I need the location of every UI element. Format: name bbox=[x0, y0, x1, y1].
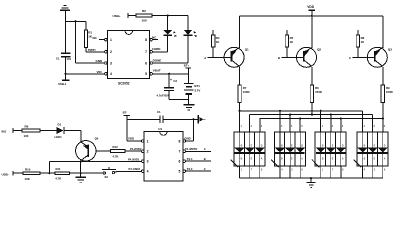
svg-text:B: B bbox=[204, 157, 206, 161]
ground (Q4 emitter) bbox=[75, 177, 86, 182]
svg-text:Q1: Q1 bbox=[245, 48, 249, 52]
wire Q4 emitter down bbox=[80, 161, 82, 177]
svg-text:100R: 100R bbox=[243, 90, 250, 94]
svg-text:P4.0/XD1: P4.0/XD1 bbox=[128, 157, 140, 161]
svg-text:R12: R12 bbox=[113, 145, 119, 149]
svg-text:P4.4: P4.4 bbox=[187, 157, 193, 161]
svg-text:USB+: USB+ bbox=[113, 14, 121, 18]
pin3 label P4.0/XD1 bbox=[128, 157, 140, 161]
LED D3 (charge indicator) bbox=[163, 16, 177, 52]
svg-text:100: 100 bbox=[24, 134, 29, 138]
svg-text:4: 4 bbox=[147, 170, 149, 174]
LED display block DS4 bbox=[354, 125, 388, 178]
node R10 output junction bbox=[40, 172, 55, 174]
wire bypass to pin3 row bbox=[49, 161, 142, 173]
wire C1 row bbox=[127, 118, 160, 120]
transistor driver Q2 with R5 base / R6 collector bbox=[278, 16, 322, 103]
wire pin7 CHRD to LED D3 bbox=[152, 51, 167, 53]
connector BT+ terminal bbox=[184, 64, 191, 74]
pin4 label VIN bbox=[97, 70, 102, 74]
svg-text:R11: R11 bbox=[56, 167, 61, 171]
wire U1 pin5 net C bbox=[186, 167, 212, 171]
svg-text:P4.2/XD2: P4.2/XD2 bbox=[130, 147, 142, 151]
svg-text:SC2052: SC2052 bbox=[118, 81, 130, 85]
wire Q3 collector drop bbox=[382, 103, 384, 132]
LED D4 (done indicator) bbox=[184, 16, 198, 64]
wire C3 to battery negative bbox=[169, 98, 188, 100]
svg-text:R10: R10 bbox=[25, 167, 31, 171]
wire C1 to VIN and USB-1 bbox=[66, 57, 106, 80]
svg-text:4.7K: 4.7K bbox=[55, 176, 61, 180]
op: charger IC U2 body SC2052 bbox=[107, 31, 149, 86]
resistor R2 bbox=[136, 9, 152, 22]
node VDD rail junction bbox=[311, 15, 313, 17]
pin7 label CHRD bbox=[152, 47, 161, 51]
pin1 NC stub bbox=[93, 36, 105, 40]
svg-text:BT-: BT- bbox=[123, 110, 128, 114]
wire display common rail bbox=[240, 177, 383, 179]
svg-text:8: 8 bbox=[145, 38, 147, 42]
wire bus C (Q3 net) bbox=[260, 117, 384, 131]
svg-text:C1: C1 bbox=[56, 57, 60, 61]
svg-text:U1: U1 bbox=[158, 127, 162, 131]
pin6 label DONE bbox=[153, 59, 162, 63]
connector USB+ input bbox=[113, 13, 137, 18]
resistor R10 bbox=[23, 167, 40, 181]
svg-text:USB-: USB- bbox=[2, 172, 9, 176]
svg-text:1: 1 bbox=[110, 38, 112, 42]
svg-text:P4.4/MTO: P4.4/MTO bbox=[185, 147, 197, 151]
svg-text:104: 104 bbox=[67, 57, 72, 61]
svg-text:C: C bbox=[349, 56, 351, 60]
svg-text:Q4: Q4 bbox=[95, 137, 99, 141]
jack J1 (probe tip) bbox=[198, 115, 205, 124]
transistor driver Q1 with R4 base / R7 collector bbox=[204, 16, 249, 103]
svg-text:P4.3: P4.3 bbox=[187, 167, 193, 171]
svg-text:6: 6 bbox=[179, 160, 181, 164]
wire U1 pin1 VDD bbox=[127, 137, 142, 141]
connector IN1 input bbox=[2, 128, 23, 133]
svg-text:S2: S2 bbox=[105, 175, 109, 179]
transistor Q4 bbox=[76, 137, 99, 161]
svg-text:1: 1 bbox=[147, 139, 149, 143]
svg-text:+: + bbox=[170, 78, 172, 82]
wire branch to R1 top bbox=[66, 21, 87, 30]
resistor R1 bbox=[84, 30, 92, 48]
svg-text:1K: 1K bbox=[216, 40, 220, 44]
node emitter junction lower bbox=[80, 172, 82, 174]
svg-text:4: 4 bbox=[110, 72, 112, 76]
svg-text:3.7V: 3.7V bbox=[194, 89, 200, 93]
node C3 tap bbox=[168, 73, 170, 75]
LED display block DS1 bbox=[231, 126, 265, 178]
node LED1 tap bbox=[167, 14, 169, 16]
svg-text:1K: 1K bbox=[361, 40, 365, 44]
svg-text:USB-1: USB-1 bbox=[58, 82, 67, 86]
LED display block DS3 bbox=[312, 126, 346, 178]
pin8 NC stub bbox=[152, 36, 158, 40]
svg-text:2: 2 bbox=[147, 150, 149, 154]
svg-text:BT1: BT1 bbox=[194, 84, 200, 88]
wire U1 pin8 GND riser bbox=[184, 119, 193, 141]
capacitor C3 4.7uF/50V bbox=[157, 74, 178, 100]
svg-text:6: 6 bbox=[145, 61, 147, 65]
connector USB-1 terminal bbox=[58, 80, 69, 86]
power VDD symbol bbox=[307, 5, 315, 16]
svg-text:R9: R9 bbox=[25, 125, 29, 129]
battery BT1 3.7V bbox=[184, 74, 201, 105]
svg-text:B: B bbox=[278, 56, 280, 60]
pin4 label P4.1/SD2 bbox=[128, 167, 140, 171]
wire U1 pin6 net B bbox=[186, 157, 212, 161]
svg-text:7: 7 bbox=[145, 50, 147, 54]
pin3 label GND bbox=[96, 59, 104, 63]
wire bus A (Q1 net) bbox=[239, 110, 363, 132]
connector BT- terminal bbox=[123, 110, 131, 141]
svg-text:VBAT: VBAT bbox=[153, 69, 161, 73]
wire VDD rail bbox=[240, 15, 383, 17]
svg-text:5: 5 bbox=[179, 170, 181, 174]
wire pin6 DONE to LED D4 bbox=[152, 62, 188, 64]
connector USB- input bbox=[2, 171, 24, 177]
IC U2 pins 1-8 bbox=[105, 38, 153, 76]
power terminal VCC bar (top-left) bbox=[60, 6, 70, 11]
svg-text:C3: C3 bbox=[173, 79, 177, 83]
resistor R9 bbox=[22, 125, 40, 139]
wire bus B (Q2 net) bbox=[250, 114, 373, 132]
switch S2 (push button) bbox=[102, 167, 116, 179]
svg-text:P4.1/SD2: P4.1/SD2 bbox=[128, 167, 140, 171]
svg-text:3: 3 bbox=[110, 61, 112, 65]
wire D1 to Q4 collector bbox=[64, 131, 81, 143]
wire Q2 collector drop bbox=[311, 103, 313, 115]
ground (battery) bbox=[183, 105, 194, 110]
wire R2 output rail bbox=[152, 15, 188, 17]
resistor R12 (base) bbox=[111, 145, 126, 158]
svg-text:PWTI: PWTI bbox=[88, 48, 96, 52]
svg-text:100R: 100R bbox=[386, 90, 393, 94]
svg-text:GND: GND bbox=[96, 59, 104, 63]
wire U1 pin7 net A bbox=[185, 147, 211, 151]
wire pin3 GND riser bbox=[76, 21, 106, 63]
diode D1 bbox=[55, 123, 64, 140]
wire pin5 VBAT rail bbox=[152, 73, 188, 75]
svg-text:150R: 150R bbox=[315, 90, 322, 94]
node VIN junction bbox=[64, 73, 66, 75]
svg-text:Q3: Q3 bbox=[388, 48, 392, 52]
svg-text:BT+: BT+ bbox=[184, 64, 190, 68]
IC U1 pins 1-8 bbox=[142, 139, 186, 173]
svg-text:3: 3 bbox=[147, 160, 149, 164]
wire R1 to pin2 bbox=[86, 48, 106, 52]
svg-text:VIN: VIN bbox=[97, 70, 102, 74]
resistor R11 bbox=[55, 167, 70, 181]
svg-text:Q2: Q2 bbox=[317, 48, 321, 52]
svg-text:CHRD: CHRD bbox=[152, 47, 161, 51]
svg-text:D1: D1 bbox=[58, 123, 62, 127]
pin5 label VBAT bbox=[153, 69, 161, 73]
svg-text:VDD: VDD bbox=[128, 137, 134, 141]
svg-text:2: 2 bbox=[110, 50, 112, 54]
node junction on branch bbox=[75, 20, 77, 22]
wire R11 to ground node bbox=[70, 172, 104, 174]
svg-text:8: 8 bbox=[179, 139, 181, 143]
wire C1 to jack bbox=[163, 118, 198, 120]
wire R12 to U1 pin2 bbox=[125, 150, 142, 152]
svg-text:LED1: LED1 bbox=[55, 135, 63, 139]
node emitter junction upper bbox=[80, 161, 82, 163]
capacitor C1 (input) bbox=[56, 53, 71, 61]
wire S2 to U1 pin4 bbox=[115, 171, 142, 172]
capacitor C1 (MCU) bbox=[157, 110, 163, 123]
wire Q1 collector drop bbox=[239, 103, 241, 132]
svg-text:10K: 10K bbox=[25, 177, 31, 181]
svg-text:IN1: IN1 bbox=[2, 130, 7, 134]
node ground tap bbox=[310, 177, 312, 179]
wire R9 to D1 bbox=[40, 130, 57, 132]
svg-text:A: A bbox=[204, 56, 206, 60]
svg-text:100: 100 bbox=[142, 19, 147, 23]
svg-text:C: C bbox=[204, 167, 206, 171]
pin2 label PWTI bbox=[88, 48, 96, 52]
transistor driver Q3 with R8 base / R9 collector bbox=[349, 16, 393, 103]
node GND riser tap bbox=[193, 118, 195, 120]
wire VCC vertical to C1 bbox=[65, 11, 67, 53]
svg-text:A: A bbox=[204, 147, 206, 151]
svg-text:C1: C1 bbox=[157, 110, 161, 114]
op: MCU IC U1 body bbox=[144, 127, 183, 181]
svg-text:1K: 1K bbox=[290, 40, 294, 44]
ground (display common) bbox=[307, 178, 316, 187]
svg-text:VDD: VDD bbox=[307, 5, 314, 9]
svg-text:5: 5 bbox=[145, 72, 147, 76]
svg-text:7: 7 bbox=[179, 150, 181, 154]
LED display block DS2 bbox=[271, 125, 305, 178]
svg-text:4.7K: 4.7K bbox=[113, 154, 119, 158]
wire Q4 base to R12 bbox=[96, 150, 111, 152]
pin2 label P4.2/XD2 bbox=[130, 147, 142, 151]
svg-text:4.7uF/50V: 4.7uF/50V bbox=[157, 94, 170, 98]
svg-text:DONE: DONE bbox=[153, 59, 162, 63]
svg-text:R2: R2 bbox=[142, 9, 146, 13]
